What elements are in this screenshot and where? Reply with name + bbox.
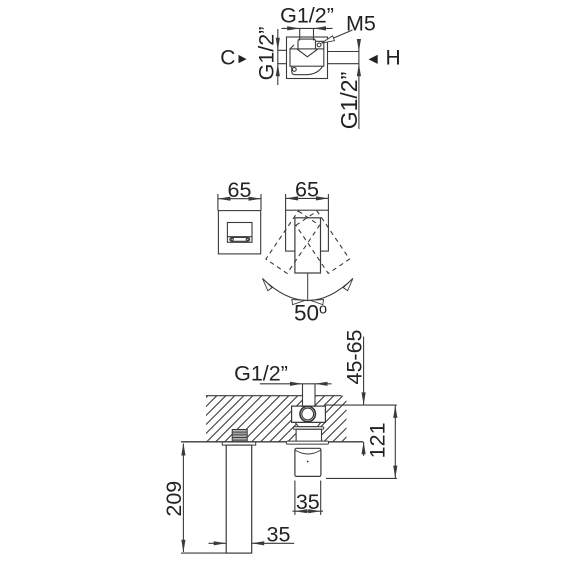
arrows 45-65 xyxy=(362,392,366,405)
svg-text:65: 65 xyxy=(228,178,252,202)
hatch top edge xyxy=(206,395,342,397)
ext line 121 top xyxy=(325,404,396,406)
45-65 dim line xyxy=(363,337,365,456)
arrows 121 xyxy=(393,405,397,418)
centerline xyxy=(307,273,309,301)
wall hatch xyxy=(161,395,398,443)
left vertical dimension line xyxy=(277,29,279,85)
arc end arrows xyxy=(260,277,272,291)
escutcheon bar xyxy=(293,427,324,430)
arrows right vdim xyxy=(357,39,361,52)
cartridge plate xyxy=(290,49,324,66)
right pipe (H inlet) xyxy=(328,52,360,64)
svg-text:G1/2”: G1/2” xyxy=(234,362,288,386)
thread block of spout xyxy=(232,430,247,442)
svg-text:G1/2”: G1/2” xyxy=(255,27,279,81)
handle ext lines xyxy=(295,481,321,516)
handle xyxy=(295,448,321,476)
valve circle inner xyxy=(302,408,314,420)
arrows G1/2 bottom xyxy=(290,382,303,386)
209 bottom ext xyxy=(181,552,227,554)
35 handle dim xyxy=(293,510,324,512)
chamfer top-left xyxy=(290,45,294,49)
wall face line xyxy=(181,441,363,443)
cartridge cap xyxy=(298,39,316,49)
right trim plate xyxy=(286,210,329,251)
svg-text:121: 121 xyxy=(366,422,390,458)
svg-text:35: 35 xyxy=(267,523,291,547)
V notch xyxy=(297,49,318,57)
top-right tab xyxy=(316,41,324,49)
spout tube xyxy=(226,445,252,553)
right 65 extension lines xyxy=(286,194,329,210)
left 65 extension lines xyxy=(218,194,261,211)
screw hole bottom-left xyxy=(292,68,296,72)
valve body xyxy=(296,429,321,442)
svg-text:C: C xyxy=(220,46,235,69)
wall flange of mixer xyxy=(286,441,328,444)
svg-text:M5: M5 xyxy=(346,11,376,35)
swivel dashed outline left xyxy=(296,211,350,273)
top dimension line G1/2 xyxy=(282,27,333,29)
spout escutcheon xyxy=(222,442,255,445)
valve nut trapezoid xyxy=(295,422,321,426)
svg-text:H: H xyxy=(386,46,401,69)
C arrow xyxy=(239,55,247,63)
valve pocket xyxy=(292,406,326,422)
G1/2 dim line bottom xyxy=(260,383,332,385)
screw hole M5 xyxy=(317,43,321,47)
209 dim line xyxy=(182,444,184,553)
35 tube dim xyxy=(209,542,295,544)
right 65 dimension line xyxy=(286,197,329,199)
arrows 35 handle xyxy=(295,509,308,513)
M5 leader arrowhead xyxy=(321,36,335,46)
arrows left vdim xyxy=(276,38,280,51)
svg-text:65: 65 xyxy=(295,178,319,202)
handle chamfer arc xyxy=(295,450,321,454)
arrows 209 xyxy=(181,443,185,456)
svg-text:G1/2”: G1/2” xyxy=(336,72,362,130)
thread ribs xyxy=(232,431,247,441)
arrows 65 left xyxy=(218,197,231,201)
50 deg arc xyxy=(263,279,353,301)
bottom rounded shape xyxy=(292,66,323,75)
arrows 65 right xyxy=(286,196,299,200)
121 dim line xyxy=(394,406,396,478)
valve body outer square xyxy=(287,37,328,79)
handle dot xyxy=(307,461,309,463)
ext line 121 bottom xyxy=(326,477,397,479)
spout (solid) xyxy=(295,218,321,273)
left pipe (C inlet) xyxy=(277,50,286,63)
valve circle outer xyxy=(300,406,315,421)
supply pipe lines xyxy=(303,384,316,407)
arc center arrows xyxy=(292,298,306,305)
handle band line xyxy=(227,236,252,238)
handle escutcheon rect xyxy=(227,223,252,243)
svg-text:35: 35 xyxy=(296,490,320,514)
svg-text:45-65: 45-65 xyxy=(343,329,367,384)
svg-text:G1/2”: G1/2” xyxy=(280,3,334,27)
arrows top dim xyxy=(287,26,300,30)
supply pipe white gap xyxy=(303,395,316,407)
H arrow xyxy=(369,55,378,64)
left trim plate xyxy=(218,211,260,254)
arrows 35 tube xyxy=(214,541,227,545)
handle slot xyxy=(230,238,250,242)
top inlet stub pipe xyxy=(300,29,314,41)
right vertical dimension line xyxy=(358,39,360,129)
left 65 dimension line xyxy=(218,198,261,200)
swivel dashed outline right xyxy=(266,211,320,273)
svg-text:209: 209 xyxy=(162,481,186,517)
M5 leader line xyxy=(322,30,353,43)
